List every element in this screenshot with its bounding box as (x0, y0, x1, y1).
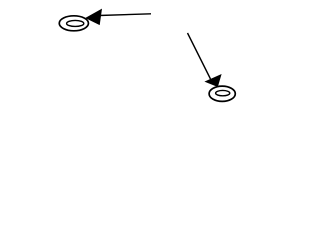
arrow A2 shaft (188, 33, 211, 79)
eyelet E2 inner ellipse (216, 90, 230, 95)
eyelet E1 outer ellipse (59, 16, 88, 31)
arrow A1 head (85, 9, 102, 26)
arrow A1 shaft (99, 14, 151, 16)
eyelet E1 inner ellipse (67, 20, 84, 26)
eyelet E2 outer ellipse (209, 86, 235, 101)
arrow A2 head (204, 74, 221, 87)
